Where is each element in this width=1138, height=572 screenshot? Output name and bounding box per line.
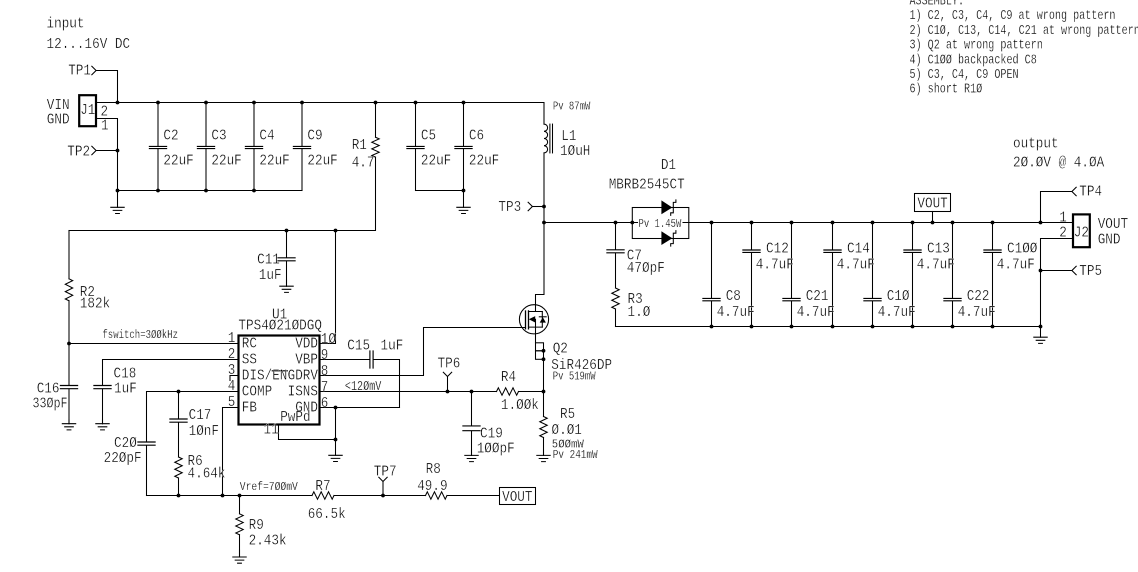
svg-text:22uF: 22uF xyxy=(163,152,193,169)
svg-text:TP1: TP1 xyxy=(68,63,91,80)
svg-text:RC: RC xyxy=(242,336,257,353)
svg-text:1.Ø: 1.Ø xyxy=(628,304,651,321)
svg-text:C15: C15 xyxy=(347,337,370,354)
svg-text:4.7uF: 4.7uF xyxy=(837,256,875,273)
svg-text:5: 5 xyxy=(228,394,236,411)
svg-text:C12: C12 xyxy=(766,240,789,257)
svg-text:C8: C8 xyxy=(726,288,741,305)
svg-text:J2: J2 xyxy=(1074,224,1089,241)
svg-text:33ØpF: 33ØpF xyxy=(33,396,68,413)
svg-text:4.64k: 4.64k xyxy=(188,465,226,482)
svg-text:1Ø: 1Ø xyxy=(321,331,336,348)
svg-text:GND: GND xyxy=(47,111,70,128)
svg-text:1.ØØk: 1.ØØk xyxy=(501,397,539,414)
svg-text:22uF: 22uF xyxy=(259,152,289,169)
svg-text:COMP: COMP xyxy=(242,384,272,401)
svg-text:7: 7 xyxy=(321,379,329,396)
svg-text:4: 4 xyxy=(228,378,236,395)
svg-text:1uF: 1uF xyxy=(114,381,137,398)
svg-text:VBP: VBP xyxy=(295,352,318,369)
svg-text:C11: C11 xyxy=(257,251,280,268)
svg-text:C13: C13 xyxy=(927,240,950,257)
svg-text:input: input xyxy=(47,16,85,33)
svg-text:1: 1 xyxy=(228,330,236,347)
svg-text:8: 8 xyxy=(321,363,329,380)
svg-text:2) C1Ø, C13, C14, C21 at wrong: 2) C1Ø, C13, C14, C21 at wrong pattern xyxy=(910,23,1138,39)
svg-text:TP6: TP6 xyxy=(438,356,461,373)
svg-text:C4: C4 xyxy=(259,128,274,145)
svg-text:3) Q2 at wrong pattern: 3) Q2 at wrong pattern xyxy=(910,38,1043,54)
svg-text:R9: R9 xyxy=(249,517,264,534)
svg-text:VDD: VDD xyxy=(295,336,318,353)
svg-text:1uF: 1uF xyxy=(381,337,404,354)
svg-text:VOUT: VOUT xyxy=(502,489,532,506)
svg-text:Vref=7ØØmV: Vref=7ØØmV xyxy=(240,480,298,494)
svg-text:3: 3 xyxy=(228,362,236,379)
svg-text:4.7uF: 4.7uF xyxy=(717,304,755,321)
svg-text:C21: C21 xyxy=(806,288,829,305)
svg-text:22uF: 22uF xyxy=(421,152,451,169)
svg-text:TP4: TP4 xyxy=(1079,184,1102,201)
svg-text:output: output xyxy=(1013,135,1059,152)
svg-text:Pv 241mW: Pv 241mW xyxy=(553,448,599,462)
svg-text:TP5: TP5 xyxy=(1079,263,1102,280)
svg-text:PwPd: PwPd xyxy=(280,409,310,426)
svg-text:fswitch=3ØØkHz: fswitch=3ØØkHz xyxy=(102,328,178,342)
svg-text:D1: D1 xyxy=(661,157,676,174)
svg-text:C17: C17 xyxy=(189,407,212,424)
svg-text:TP7: TP7 xyxy=(374,464,397,481)
svg-text:FB: FB xyxy=(242,400,257,417)
svg-text:6) short R1Ø: 6) short R1Ø xyxy=(910,82,983,98)
svg-text:22ØpF: 22ØpF xyxy=(104,450,142,467)
svg-text:22uF: 22uF xyxy=(211,152,241,169)
svg-text:SS: SS xyxy=(242,352,257,369)
svg-text:C2: C2 xyxy=(163,128,178,145)
svg-text:C14: C14 xyxy=(847,240,870,257)
svg-text:J1: J1 xyxy=(80,102,95,119)
svg-text:R8: R8 xyxy=(426,461,441,478)
svg-text:66.5k: 66.5k xyxy=(308,506,346,523)
svg-text:47ØpF: 47ØpF xyxy=(627,260,665,277)
svg-text:22uF: 22uF xyxy=(469,152,499,169)
svg-text:R7: R7 xyxy=(315,478,330,495)
svg-text:R4: R4 xyxy=(501,369,516,386)
svg-text:C22: C22 xyxy=(967,288,990,305)
svg-text:C6: C6 xyxy=(469,128,484,145)
svg-text:4.7uF: 4.7uF xyxy=(878,304,916,321)
svg-text:R1: R1 xyxy=(352,137,367,154)
svg-text:1ØnF: 1ØnF xyxy=(189,423,219,440)
svg-text:2.43k: 2.43k xyxy=(249,533,287,550)
svg-text:5) C3, C4, C9 OPEN: 5) C3, C4, C9 OPEN xyxy=(910,67,1019,83)
svg-text:2Ø.ØV @ 4.ØA: 2Ø.ØV @ 4.ØA xyxy=(1013,155,1104,172)
svg-text:VOUT: VOUT xyxy=(917,196,947,213)
svg-text:MBRB2545CT: MBRB2545CT xyxy=(609,176,685,193)
svg-text:4) C1ØØ backpacked C8: 4) C1ØØ backpacked C8 xyxy=(910,52,1037,68)
svg-text:4.7: 4.7 xyxy=(352,155,375,172)
svg-text:C1ØØ: C1ØØ xyxy=(1007,240,1037,257)
svg-text:11: 11 xyxy=(264,422,279,439)
svg-text:4.7uF: 4.7uF xyxy=(958,304,996,321)
svg-text:C3: C3 xyxy=(211,128,226,145)
svg-text:Pv 1.45W: Pv 1.45W xyxy=(639,217,683,231)
svg-text:1ØuH: 1ØuH xyxy=(560,143,590,160)
svg-text:GND: GND xyxy=(1098,231,1121,248)
svg-text:4.7uF: 4.7uF xyxy=(756,256,794,273)
svg-text:C9: C9 xyxy=(307,128,322,145)
svg-text:<12ØmV: <12ØmV xyxy=(345,379,382,395)
svg-text:1) C2, C3, C4, C9 at wrong pat: 1) C2, C3, C4, C9 at wrong pattern xyxy=(910,8,1116,24)
svg-text:Pv 87mW: Pv 87mW xyxy=(553,100,591,114)
svg-text:4.7uF: 4.7uF xyxy=(997,256,1035,273)
svg-text:DIS/EN: DIS/EN xyxy=(242,368,288,385)
svg-text:49.9: 49.9 xyxy=(417,478,447,495)
svg-text:2: 2 xyxy=(1059,224,1067,241)
svg-text:R5: R5 xyxy=(560,406,575,423)
svg-text:9: 9 xyxy=(321,347,329,364)
svg-text:GDRV: GDRV xyxy=(288,368,318,385)
svg-text:Ø.Ø1: Ø.Ø1 xyxy=(552,422,582,439)
svg-text:1uF: 1uF xyxy=(259,267,282,284)
svg-text:182k: 182k xyxy=(80,296,110,313)
svg-text:TP2: TP2 xyxy=(67,143,90,160)
svg-text:6: 6 xyxy=(321,395,329,412)
svg-text:TP3: TP3 xyxy=(498,199,521,216)
svg-text:ISNS: ISNS xyxy=(288,384,318,401)
svg-text:Q2: Q2 xyxy=(553,340,568,357)
svg-text:22uF: 22uF xyxy=(307,152,337,169)
svg-text:C5: C5 xyxy=(421,128,436,145)
svg-text:2: 2 xyxy=(228,346,236,363)
svg-text:4.7uF: 4.7uF xyxy=(917,256,955,273)
svg-text:Pv 519mW: Pv 519mW xyxy=(553,370,597,384)
svg-text:TPS4Ø21ØDGQ: TPS4Ø21ØDGQ xyxy=(238,318,322,335)
svg-text:C1Ø: C1Ø xyxy=(887,288,910,305)
svg-text:1ØØpF: 1ØØpF xyxy=(477,441,515,458)
svg-text:4.7uF: 4.7uF xyxy=(797,304,835,321)
svg-text:1: 1 xyxy=(101,118,109,135)
svg-text:12...16V DC: 12...16V DC xyxy=(47,36,131,53)
